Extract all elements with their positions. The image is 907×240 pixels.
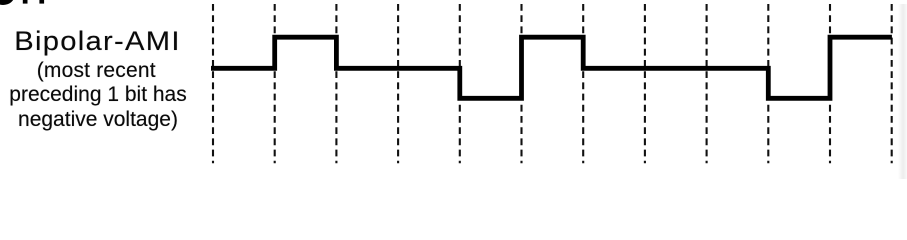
bit boundary dashed line 8 xyxy=(644,4,646,163)
bit boundary dashed line 7 xyxy=(582,4,584,163)
bit boundary dashed line 6 xyxy=(520,4,522,163)
clipped heading glyph: left stem bottom xyxy=(23,0,28,4)
bit boundary dashed line 4 xyxy=(397,4,399,163)
bit boundary dashed line 3 xyxy=(335,4,337,163)
label: subtitle lines 2-3 "preceding 1 bit has negative voltage)" xyxy=(0,59,196,133)
clipped heading glyph: bottom of letter 'o' xyxy=(0,0,15,5)
page edge shading at right xyxy=(898,4,907,179)
bit boundary dashed line 5 xyxy=(459,4,461,163)
bit boundary dashed line 12 xyxy=(891,4,893,163)
bit boundary dashed line 2 xyxy=(274,4,276,163)
label: subtitle line 1 "(most recent" xyxy=(0,59,193,84)
bit boundary dashed line 1 xyxy=(212,4,214,163)
label: Bipolar-AMI title xyxy=(0,28,204,55)
clipped heading glyph: right stem bottom xyxy=(39,0,44,4)
bit boundary dashed line 11 xyxy=(829,4,831,163)
Bipolar-AMI signal waveform (bits 0 1 0 0 1 1 0 0 0 1 1) xyxy=(211,37,892,98)
bit boundary dashed line 10 xyxy=(767,4,769,163)
bit boundary dashed line 9 xyxy=(706,4,708,163)
